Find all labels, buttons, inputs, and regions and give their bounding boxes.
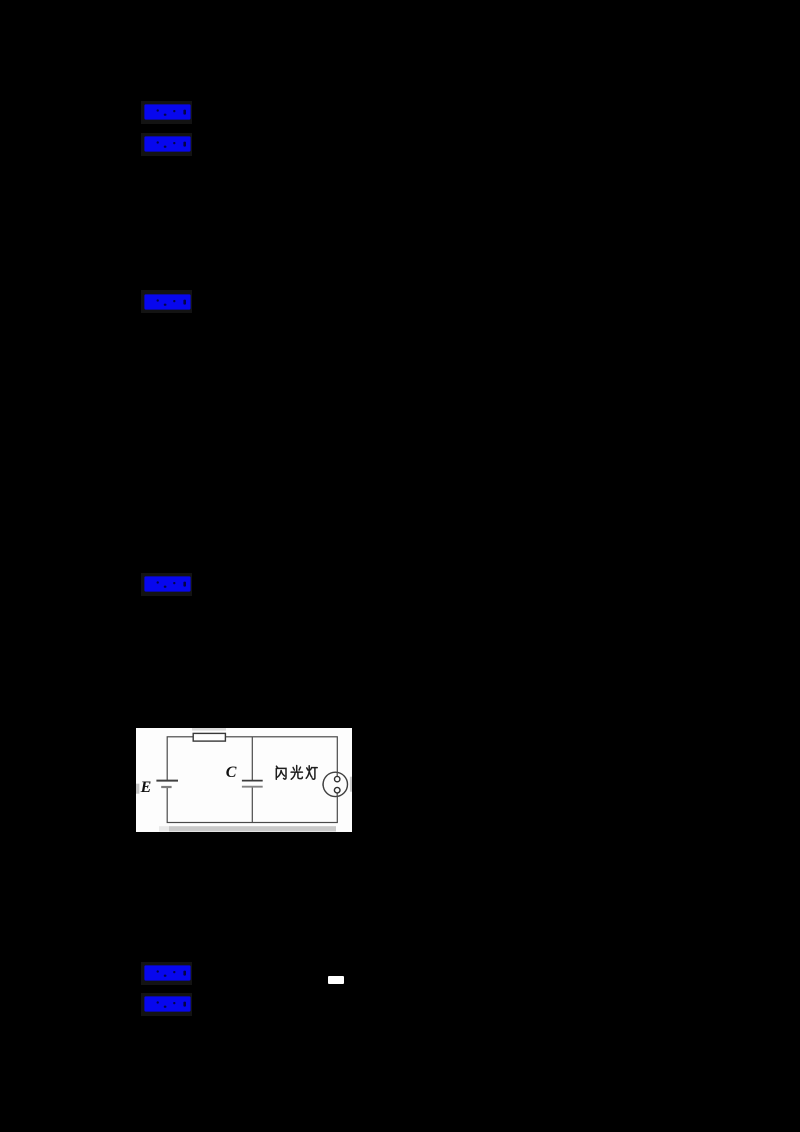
glyph shan 闪: [276, 766, 286, 779]
scan smudge bottom strip: [159, 826, 170, 831]
scan smudge left edge: [136, 783, 139, 793]
smudge left of lamp: [322, 783, 324, 786]
scan smudge top: [192, 728, 226, 731]
node label5 halo: [141, 962, 192, 985]
node label4 halo: [141, 573, 192, 596]
wire outer loop: [167, 737, 337, 823]
scan smudge right edge: [350, 776, 352, 791]
node label1 halo: [141, 101, 192, 124]
node label6 analysis tag: [144, 996, 191, 1012]
node label4 comment tag: [144, 576, 191, 592]
lamp top lead stub: [336, 772, 338, 777]
node label3 halo: [141, 290, 192, 313]
svg-text:E: E: [140, 779, 152, 796]
lamp body circle: [323, 772, 347, 796]
capacitor C bottom plate: [242, 785, 263, 787]
svg-text:C: C: [226, 764, 237, 781]
glyph deng 灯: [306, 765, 317, 779]
node formula white box: [328, 976, 344, 984]
capacitor C top plate: [242, 779, 263, 781]
battery E gap: [163, 781, 171, 787]
wire middle branch: [251, 737, 253, 823]
node label3 explain tag: [144, 294, 191, 310]
node label2 halo: [141, 133, 192, 156]
lamp bottom contact circle: [334, 787, 340, 793]
node label2 analysis tag: [144, 136, 191, 152]
battery E long plate: [156, 779, 178, 781]
node label6 halo: [141, 993, 192, 1016]
glyph guang 光: [291, 765, 302, 779]
resistor R: [193, 733, 225, 741]
battery E short plate: [161, 786, 171, 788]
circuit diagram image box: [136, 728, 352, 832]
node label5 answer tag: [144, 965, 191, 981]
capacitor C gap: [248, 781, 257, 786]
lamp bottom lead stub: [336, 793, 338, 797]
lamp top contact circle: [335, 776, 340, 781]
node label1 answer tag: [144, 104, 191, 120]
